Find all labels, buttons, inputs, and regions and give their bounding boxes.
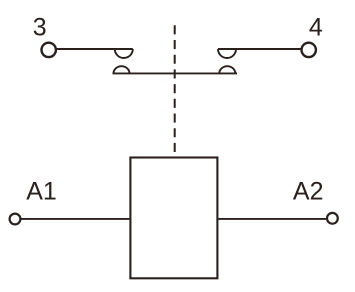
terminal circle 4: [302, 43, 316, 57]
left moving contact bump: [114, 66, 130, 73]
svg-text:A1: A1: [26, 178, 57, 206]
svg-text:4: 4: [309, 14, 323, 42]
svg-text:3: 3: [33, 14, 47, 42]
svg-text:A2: A2: [293, 178, 324, 206]
terminal circle 3: [42, 43, 56, 57]
coil K1 rectangle: [130, 158, 217, 279]
wire from terminal A1 to coil: [20, 218, 129, 220]
actuator dashed link line: [174, 25, 176, 152]
wire from terminal 3 to left fixed contact: [56, 48, 133, 50]
right moving contact bump: [219, 66, 235, 73]
terminal circle A1: [10, 214, 21, 225]
wire from right fixed contact to terminal 4: [218, 48, 302, 50]
left fixed contact arc (pin 3): [115, 49, 133, 58]
moving bridge wire: [113, 72, 238, 74]
right fixed contact arc (pin 4): [218, 49, 236, 58]
terminal circle A2: [327, 213, 338, 224]
wire from coil to terminal A2: [218, 218, 327, 220]
